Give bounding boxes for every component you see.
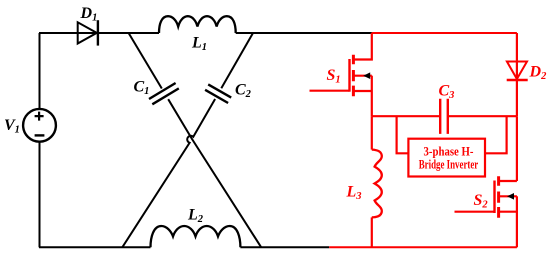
voltage source V1 circle [23,109,56,142]
transistor S2 channel segments [497,176,500,218]
diode D1 triangle [78,22,97,43]
wire C3 rail left [372,115,440,117]
inductor L1 [159,16,236,33]
transistor S1 gate bar [348,59,350,92]
transistor S2 body stub [499,195,517,197]
inductor L2 [151,226,241,247]
diode D2 cathode bar [507,79,528,81]
transistor S1 source stub [353,90,371,92]
wire L3 lower connection [371,217,373,247]
inductor L3 [372,150,382,218]
svg-text:Bridge Inverter: Bridge Inverter [419,158,479,172]
wire diagonal (lower segment from C1 to bottom-right) [168,99,261,247]
wire top black [39,32,159,34]
wire left vertical lower [39,142,41,248]
wire inverter left lead [397,116,409,153]
V1 minus sign [35,134,45,136]
wire D2 branch upper [516,33,518,80]
wire bottom red [329,246,517,248]
transistor S1 channel segments [352,55,355,97]
wire L3 upper connection [371,116,373,149]
wire S2 drain from C3 node [516,116,518,181]
diode D2 triangle [507,62,527,80]
transistor S2 drain stub [499,180,517,182]
transistor S1 body arrow [363,72,370,79]
transistor S1 gate lead [310,90,350,92]
wire diagonal top-left to bottom-right (upper segment, to C1) [129,33,162,89]
inverter box [408,139,485,177]
capacitor C1 plates [149,83,179,104]
wire S1 source down to C3 node [371,76,373,117]
transistor S2 gate bar [493,181,495,214]
wire inverter right lead [485,116,507,153]
transistor S2 source stub [499,211,517,213]
transistor S2 body arrow [507,193,514,200]
wire bottom black [39,246,151,248]
transistor S2 gate lead [455,211,495,213]
wire bottom black right of L2 [240,246,329,248]
capacitor C2 plates [205,84,231,103]
capacitor C3 plates [440,99,448,134]
diode D1 cathode bar [97,20,99,45]
wire S2 source down [516,196,518,247]
V1 plus sign [35,112,44,121]
wire top black right of L1 [236,32,372,34]
wire C3 rail right [448,115,517,117]
wire left vertical upper [39,33,41,109]
wire diagonal top-right to bottom-left (upper segment, to C2) [221,33,253,88]
svg-text:3-phase H-: 3-phase H- [424,145,474,159]
wire D2 branch lower [516,80,518,116]
transistor S1 drain stub and lead [353,33,371,60]
wire diagonal (from C2 down to crossing hop) [122,99,215,247]
transistor S1 body stub [353,75,371,77]
wire top red [372,32,517,34]
